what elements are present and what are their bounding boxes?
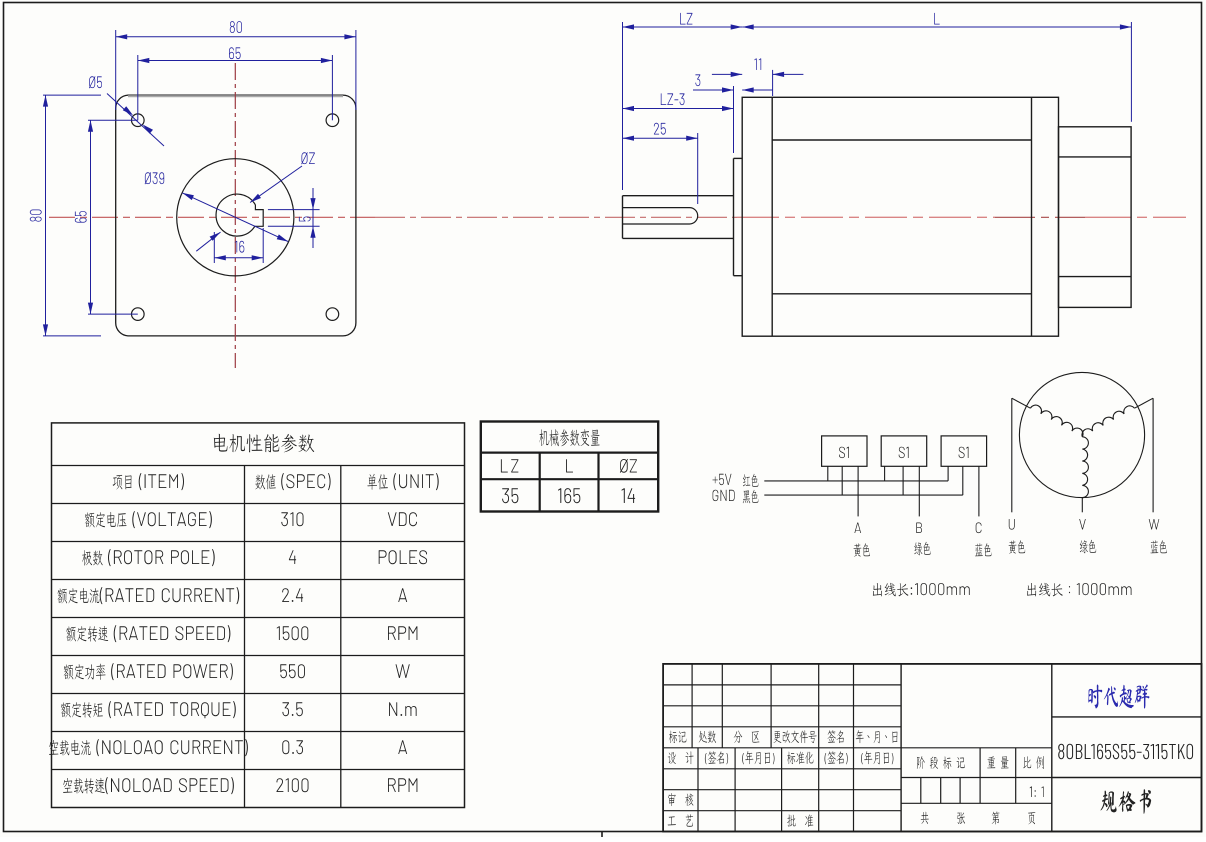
performance table header row [113, 473, 439, 490]
side view: pilot boss [734, 158, 743, 275]
dimension L (motor body length) [742, 13, 1131, 122]
hall output A yellow [854, 523, 871, 557]
dimension 25 (keyway length) [623, 123, 698, 204]
side view: shaft outline [623, 196, 734, 239]
dimension 80 (flange width, top) [116, 21, 356, 110]
design row labels [668, 751, 894, 764]
hall output B green [914, 523, 930, 556]
hall lead length label [873, 583, 970, 597]
winding lead length label [1027, 583, 1131, 597]
checker row label [668, 793, 693, 806]
front view: shaft circle with keyway [216, 194, 263, 236]
phase U label yellow [1009, 519, 1026, 554]
hall sensor S1 box 2 [881, 436, 927, 466]
dimension dia-39 (pilot circle) [145, 172, 289, 241]
winding coil W (upper-right) [1082, 406, 1135, 437]
performance table row: 3.5 N.m [61, 701, 417, 718]
hall sensor S1 box 3 [941, 436, 987, 466]
side view: shaft keyway slot [623, 208, 698, 224]
side view: rear housing top step line [1059, 156, 1132, 158]
main horizontal centerline (dash-dot, red) [49, 216, 1186, 218]
dimension dia-5 (bolt hole) with leader [89, 76, 164, 146]
front view: pilot boss circle dia 39 [177, 159, 294, 276]
phase V label green [1079, 519, 1096, 553]
scale value 1:1 [1030, 787, 1044, 798]
winding lead W wire [1135, 398, 1154, 512]
+5V supply rail wire [764, 480, 948, 482]
performance table row: 550 W [64, 663, 410, 680]
front view: bolt hole bottom-right [326, 308, 339, 321]
dimension 3 (pilot boss height) [693, 74, 773, 153]
side view: front endbell line [771, 97, 773, 336]
phase W label blue [1149, 519, 1167, 553]
document type: specification sheet [1100, 789, 1151, 814]
dimension LZ-3 [623, 93, 734, 152]
mechanical table title: mechanical parameter variables [539, 429, 599, 446]
motor winding circle [1019, 372, 1144, 497]
hall sensor 2 pin wires [885, 466, 920, 516]
stage mark weight scale labels [917, 756, 1044, 769]
title block outer border [663, 664, 1201, 832]
performance table row: 2.4 A [57, 587, 407, 604]
performance table row: 1500 RPM [66, 625, 417, 642]
side view: motor body outline [742, 97, 1058, 336]
front view: bolt hole top-right [326, 114, 339, 127]
sheet bottom centering mark [601, 832, 603, 838]
front view: flange top edge highlight [128, 95, 343, 97]
side view: rear housing outline [1059, 127, 1132, 308]
company name: Shidai Chaoqun (blue) [1088, 684, 1149, 708]
side view: rear endbell line [1031, 97, 1033, 336]
revision row labels [669, 730, 897, 743]
performance table row: 0.3 A [49, 739, 407, 756]
label +5V red wire [713, 474, 759, 487]
dimension dia-Z (shaft) with leader [196, 152, 314, 251]
dimension 65 (bolt hole spacing, top) [138, 47, 333, 120]
hall output C blue [975, 522, 992, 556]
front view: vertical centerline [234, 63, 236, 368]
performance table row: 4 POLES [82, 549, 427, 566]
hall sensor S1 box 1 [822, 436, 867, 466]
winding lead U wire [1012, 398, 1031, 512]
performance table row: 2100 RPM [63, 777, 417, 794]
part number 80BL165S55-3115TK0 [1058, 744, 1193, 760]
performance table title: motor performance parameters [214, 434, 315, 453]
label GND black wire [713, 490, 759, 504]
title block revision table grid [663, 664, 901, 832]
title block middle section grid [901, 664, 1052, 832]
dimension 16 (shaft width) [214, 228, 263, 263]
winding lead V wire [1081, 498, 1083, 513]
performance table row: 310 VDC [85, 511, 417, 528]
GND rail wire [764, 494, 963, 496]
mechanical table value row 35 165 14 [502, 488, 635, 503]
hall sensor 1 pin wires [828, 466, 858, 516]
front view: bolt hole top-left [132, 114, 145, 127]
dimension 11 (flange to body front) [712, 58, 804, 96]
side view: stator top line [772, 139, 1031, 141]
motor performance table grid [52, 423, 465, 808]
process row labels [668, 814, 814, 827]
mechanical parameter table grid [481, 422, 658, 512]
sheet count labels [921, 811, 1036, 824]
side view: rear housing bottom step line [1059, 276, 1132, 278]
dimension 65 (bolt hole spacing, left) [75, 120, 138, 314]
dimension LZ (shaft+boss length) [623, 13, 743, 190]
winding coil V (bottom) [1082, 437, 1088, 498]
hall sensor 3 pin wires [948, 466, 979, 516]
winding coil U (upper-left) [1030, 405, 1083, 437]
front view: bolt hole bottom-left [132, 308, 145, 321]
dimension 80 (flange height, left) [30, 95, 101, 336]
dimension 5 (keyway height) [268, 188, 320, 248]
mechanical table header row LZ L dia-Z [501, 459, 637, 473]
side view: stator bottom line [772, 293, 1031, 295]
title block right column rows [1052, 717, 1202, 778]
front view: motor flange outline (rounded square) [116, 95, 356, 336]
